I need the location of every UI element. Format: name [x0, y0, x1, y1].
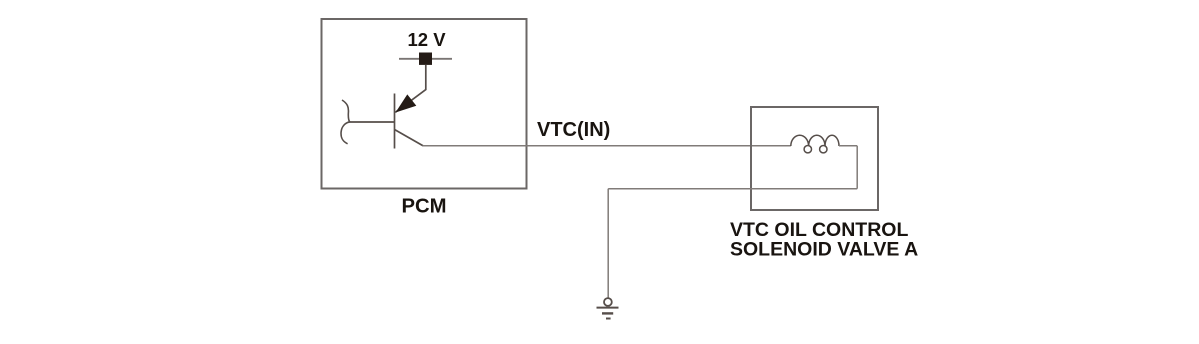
transistor Q1 collector wire — [395, 130, 424, 146]
svg-text:12 V: 12 V — [408, 29, 447, 50]
transistor Q1 body bar — [394, 94, 396, 149]
wire bottom return — [608, 188, 857, 190]
transistor Q1 base wire — [349, 121, 395, 123]
svg-text:VTC(IN): VTC(IN) — [537, 119, 610, 141]
ground symbol — [597, 298, 619, 318]
transistor Q1 emitter arrowhead — [396, 94, 417, 112]
solenoid coil L1 — [791, 135, 839, 153]
PCM box — [322, 19, 527, 189]
wire coil to box right — [839, 145, 857, 147]
wire from 12V to transistor emitter — [395, 65, 426, 112]
power supply 12V symbol — [399, 53, 452, 65]
wire down inside box — [856, 146, 858, 189]
svg-text:PCM: PCM — [402, 195, 447, 217]
wire VTC(IN) net — [423, 145, 791, 147]
svg-text:SOLENOID VALVE A: SOLENOID VALVE A — [730, 239, 918, 261]
wire to ground — [607, 189, 609, 298]
solenoid valve box — [751, 107, 878, 210]
internal connection brace — [341, 100, 350, 144]
